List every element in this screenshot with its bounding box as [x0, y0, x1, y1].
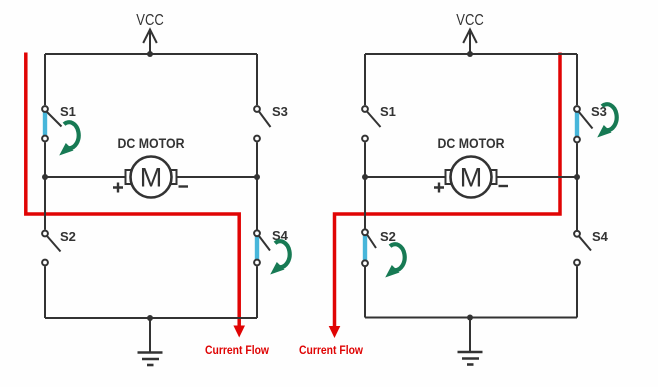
node: left motor junction dot (left bridge) [42, 174, 48, 180]
switch S1 (right bridge, open) [362, 106, 380, 141]
svg-text:Current Flow: Current Flow [205, 344, 270, 357]
switch S3 (left bridge, open) [254, 106, 270, 141]
wire: top-right vertical segment (right bridge) [576, 54, 578, 105]
switch S4 (right bridge, open) [574, 231, 591, 265]
current flow arrowhead (left) [233, 326, 245, 338]
wire: lower-right vertical segment (left bridge) [256, 266, 258, 318]
wire: lower-left vertical segment (left bridge) [44, 266, 46, 318]
wire: motor rail left side (left bridge) [45, 176, 126, 178]
current flow path (red, left) [26, 53, 239, 329]
svg-text:S2: S2 [60, 229, 76, 244]
rotation arrow at S4 (left bridge) [270, 241, 289, 274]
wire: top-left vertical segment (left bridge) [44, 54, 46, 105]
switch S2 (left bridge, open) [42, 231, 60, 266]
wire: left vertical between S1 and S2 (left bridge) [44, 142, 46, 230]
svg-text:S2: S2 [380, 229, 396, 244]
svg-text:S4: S4 [592, 229, 609, 244]
motor - terminal label (right bridge) [499, 185, 509, 187]
svg-text:Current Flow: Current Flow [299, 344, 364, 357]
ground symbol (right bridge) [458, 318, 483, 365]
wire: top-right vertical segment (left bridge) [256, 54, 258, 105]
switch S4 (left bridge, closed) [254, 230, 270, 265]
wire: left vertical between S1 and S2 (right bridge) [364, 142, 366, 228]
motor - terminal label (left bridge) [179, 185, 189, 187]
svg-text:M: M [140, 163, 163, 193]
rotation arrow at S1 (left bridge) [59, 122, 78, 155]
svg-text:DC MOTOR: DC MOTOR [118, 136, 185, 151]
motor + terminal label (left bridge) [113, 183, 123, 193]
node: right motor junction dot (left bridge) [254, 174, 260, 180]
wire: top rail (right bridge) [365, 53, 577, 55]
ground symbol (left bridge) [138, 318, 163, 365]
node: VCC junction dot (left) [147, 51, 153, 57]
switch S2 (right bridge, closed) [362, 229, 376, 266]
node: right motor junction dot (right bridge) [574, 174, 580, 180]
svg-text:VCC: VCC [136, 12, 164, 29]
motor M1 (left bridge) [126, 157, 177, 198]
power symbol VCC (right) [463, 30, 477, 55]
wire: motor rail right side (left bridge) [176, 176, 257, 178]
wire: top rail (left bridge) [45, 53, 257, 55]
motor M2 (right bridge) [446, 157, 497, 198]
svg-text:DC MOTOR: DC MOTOR [438, 136, 505, 151]
switch S1 (left bridge, closed) [42, 106, 61, 141]
rotation arrow at S2 (right bridge) [385, 244, 404, 277]
svg-text:S1: S1 [60, 104, 76, 119]
node: left motor junction dot (right bridge) [362, 174, 368, 180]
svg-text:VCC: VCC [456, 12, 484, 29]
svg-text:M: M [460, 163, 483, 193]
wire: top-left vertical segment (right bridge) [364, 54, 366, 105]
node: ground junction dot (left bridge) [147, 315, 153, 321]
current flow arrowhead (right) [329, 326, 341, 338]
svg-text:S3: S3 [272, 104, 288, 119]
current flow path (red, right) [335, 53, 561, 329]
node: ground junction dot (right bridge) [467, 315, 473, 321]
switch S3 (right bridge, closed) [574, 106, 592, 142]
svg-text:S1: S1 [380, 104, 396, 119]
power symbol VCC (left) [143, 30, 157, 55]
wire: motor rail right side (right bridge) [496, 176, 577, 178]
wire: lower-left vertical segment (right bridge) [364, 267, 366, 318]
motor + terminal label (right bridge) [434, 183, 444, 193]
wire: right vertical between S3 and S4 (right bridge) [576, 143, 578, 230]
rotation arrow at S3 (right bridge) [597, 104, 616, 137]
wire: bottom rail (left bridge) [45, 317, 257, 319]
wire: bottom rail (right bridge) [365, 317, 577, 319]
wire: motor rail left side (right bridge) [365, 176, 446, 178]
node: VCC junction dot (right) [467, 51, 473, 57]
wire: lower-right vertical segment (right bridge) [576, 266, 578, 317]
wire: right vertical between S3 and S4 (left bridge) [256, 142, 258, 230]
